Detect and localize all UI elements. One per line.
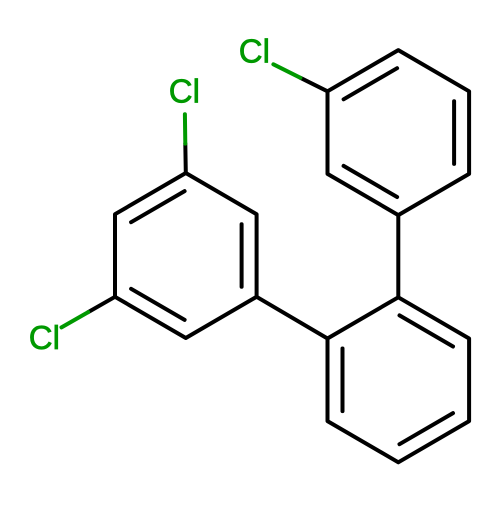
bond ring A top to Cl (black half) [183,144,188,173]
bond ring C upper-left to Cl (black half) [300,78,327,92]
ring C double bond inner line (lower-left edge) [344,166,398,197]
ring B double bond inner line (lower-right edge) [400,413,454,444]
ring B double bond inner line (upper-right edge) [400,315,454,346]
svg-text:Cl: Cl [29,319,60,356]
biaryl single bond ring B top to ring C bottom [396,215,400,297]
ring C double bond inner line (upper-left edge) [344,68,398,99]
ring A double bond inner line (upper-left edge) [131,191,185,222]
benzene ring A (3,5-dichlorophenyl) outline [115,173,257,338]
bond ring A lower-left to Cl (green half) [62,312,89,327]
benzene ring C (3-chlorophenyl) outline [328,50,470,215]
benzene ring B (central ring, bottom-right) outline [328,297,470,462]
svg-text:Cl: Cl [169,73,200,110]
bond ring A top to Cl (green half) [183,114,187,143]
bond ring A lower-left to Cl (black half) [88,297,115,312]
ring A double bond inner line (lower-left edge) [131,289,185,320]
bond ring C upper-left to Cl (green half) [273,64,300,78]
ring C double bond inner line (right edge) [452,101,456,164]
ring B double bond inner line (left edge) [341,349,345,412]
svg-text:Cl: Cl [239,33,270,70]
biaryl single bond ring A lower-right to ring B upper-left [257,297,328,339]
ring A double bond inner line (right edge) [240,224,244,287]
